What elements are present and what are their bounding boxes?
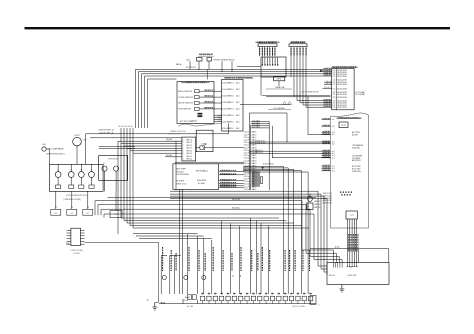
svg-text:GA 16: GA 16 bbox=[252, 159, 257, 162]
svg-text:S4: S4 bbox=[122, 126, 124, 128]
svg-text:D-4: D-4 bbox=[332, 155, 335, 157]
svg-text:C2: C2 bbox=[333, 84, 335, 86]
svg-text:C3-2: C3-2 bbox=[218, 118, 221, 120]
svg-text:D-4: D-4 bbox=[332, 132, 335, 134]
svg-text:34-2: 34-2 bbox=[236, 89, 239, 91]
svg-text:D-4: D-4 bbox=[332, 143, 335, 145]
svg-text:[ CONL W WIPER MTR SPD ]: [ CONL W WIPER MTR SPD ] bbox=[66, 195, 88, 197]
svg-text:34-21-20 B: 34-21-20 B bbox=[337, 107, 347, 109]
svg-text:F12: F12 bbox=[86, 213, 89, 215]
svg-text:D-4: D-4 bbox=[332, 126, 335, 128]
svg-text:C/BL: C/BL bbox=[186, 59, 190, 61]
svg-text:NO SIGN: NO SIGN bbox=[198, 183, 206, 185]
svg-text:34-2: 34-2 bbox=[236, 82, 239, 84]
svg-text:RED 16: RED 16 bbox=[187, 148, 192, 150]
svg-text:IGN SW SENSE: IGN SW SENSE bbox=[176, 174, 189, 176]
svg-text:YEL 18: YEL 18 bbox=[326, 81, 331, 83]
svg-text:RED 16: RED 16 bbox=[187, 139, 192, 141]
svg-text:RED 16: RED 16 bbox=[187, 150, 192, 152]
svg-text:F11: F11 bbox=[70, 213, 73, 215]
svg-text:2: 2 bbox=[183, 150, 184, 152]
svg-text:D-4: D-4 bbox=[332, 151, 335, 153]
svg-text:A/B BLOWER SW: A/B BLOWER SW bbox=[178, 90, 192, 93]
svg-text:GA 16: GA 16 bbox=[252, 133, 257, 136]
svg-text:34-2: 34-2 bbox=[236, 128, 239, 130]
svg-text:C2-4: C2-4 bbox=[244, 189, 248, 191]
svg-text:S4: S4 bbox=[125, 126, 127, 128]
svg-text:GA 16: GA 16 bbox=[252, 131, 257, 134]
svg-text:VOLT ARRAY: VOLT ARRAY bbox=[273, 107, 285, 110]
svg-text:S4: S4 bbox=[119, 126, 121, 128]
svg-text:RED 16: RED 16 bbox=[187, 153, 192, 155]
svg-text:34-2: 34-2 bbox=[236, 102, 239, 104]
svg-text:RED 16: RED 16 bbox=[187, 159, 192, 161]
svg-text:RED 16: RED 16 bbox=[187, 145, 192, 147]
svg-text:MED BLOWER SW: MED BLOWER SW bbox=[178, 103, 193, 105]
svg-text:C3-4 GRN 14: C3-4 GRN 14 bbox=[223, 82, 234, 84]
svg-text:GA 16: GA 16 bbox=[252, 154, 257, 157]
svg-text:2: 2 bbox=[183, 145, 184, 147]
svg-text:C3-4 GRN 14: C3-4 GRN 14 bbox=[223, 122, 234, 124]
svg-text:2: 2 bbox=[183, 148, 184, 150]
svg-text:B1-14 GRD: B1-14 GRD bbox=[352, 169, 361, 171]
svg-text:GA 16: GA 16 bbox=[252, 188, 257, 191]
svg-text:B6 GRD: B6 GRD bbox=[352, 134, 359, 136]
svg-text:C2-13 (CAB): C2-13 (CAB) bbox=[355, 93, 365, 96]
svg-text:SPLICE PACK: SPLICE PACK bbox=[263, 163, 275, 166]
svg-text:LT GRN 16 D-4: LT GRN 16 D-4 bbox=[255, 141, 265, 143]
svg-text:C3-4 GRN 14: C3-4 GRN 14 bbox=[223, 115, 234, 117]
svg-text:D-4: D-4 bbox=[332, 166, 335, 168]
svg-text:D-4: D-4 bbox=[332, 170, 335, 172]
svg-text:F10: F10 bbox=[54, 213, 57, 215]
svg-text:34-21-20 B: 34-21-20 B bbox=[337, 97, 347, 99]
svg-text:GA 16: GA 16 bbox=[252, 146, 257, 149]
svg-text:GRD SYS CONN: GRD SYS CONN bbox=[292, 306, 305, 308]
svg-text:2: 2 bbox=[319, 305, 320, 307]
svg-text:TO TRK: TO TRK bbox=[201, 143, 208, 145]
svg-text:C3-2: C3-2 bbox=[218, 115, 221, 117]
svg-text:GA 16: GA 16 bbox=[252, 167, 257, 170]
svg-text:GA 16: GA 16 bbox=[252, 165, 257, 168]
svg-text:OIL PRESS: OIL PRESS bbox=[352, 158, 360, 160]
svg-text:C3-4 GRN 14: C3-4 GRN 14 bbox=[223, 109, 234, 111]
svg-text:DR-36: DR-36 bbox=[341, 125, 346, 127]
svg-text:LEVEL SEN: LEVEL SEN bbox=[347, 275, 356, 277]
svg-text:C2: C2 bbox=[333, 76, 335, 78]
svg-text:34-21-20 B: 34-21-20 B bbox=[337, 84, 347, 86]
svg-text:C3-4 GRN 14: C3-4 GRN 14 bbox=[223, 128, 234, 130]
svg-text:C2: C2 bbox=[333, 107, 335, 109]
svg-text:34-2: 34-2 bbox=[236, 109, 239, 111]
svg-text:FLUID IND: FLUID IND bbox=[352, 147, 361, 149]
svg-text:PNL 5A: PNL 5A bbox=[329, 274, 336, 277]
svg-text:C3-4 GRN 14: C3-4 GRN 14 bbox=[223, 96, 234, 98]
svg-text:WIPER CON C2 D4: WIPER CON C2 D4 bbox=[170, 131, 185, 133]
svg-text:ANTI THEFT: ANTI THEFT bbox=[176, 167, 186, 170]
svg-text:34-2: 34-2 bbox=[236, 122, 239, 124]
svg-text:LOW BLOWER SW: LOW BLOWER SW bbox=[178, 97, 193, 99]
svg-text:[ WINDSHIELD WIPER ]: [ WINDSHIELD WIPER ] bbox=[64, 199, 82, 201]
svg-text:C-23: C-23 bbox=[350, 215, 354, 217]
svg-text:A-28: A-28 bbox=[66, 242, 70, 245]
svg-text:B1-12 PWR: B1-12 PWR bbox=[352, 166, 361, 168]
svg-text:LEVEL SEN: LEVEL SEN bbox=[352, 171, 361, 173]
svg-text:34-21-20 B: 34-21-20 B bbox=[337, 76, 347, 78]
svg-text:GRN 18 D-12: GRN 18 D-12 bbox=[323, 193, 333, 195]
svg-text:D-4: D-4 bbox=[332, 168, 335, 170]
svg-text:STEREO HEATER RELAY: STEREO HEATER RELAY bbox=[213, 58, 235, 61]
svg-text:A-7 SPLICE: A-7 SPLICE bbox=[186, 66, 196, 69]
svg-text:YEL 18: YEL 18 bbox=[326, 83, 331, 85]
svg-text:LOW: LOW bbox=[83, 140, 87, 142]
svg-text:RED 16: RED 16 bbox=[187, 156, 192, 158]
svg-text:2: 2 bbox=[183, 139, 184, 141]
svg-text:34-21-20 B: 34-21-20 B bbox=[337, 88, 347, 90]
svg-text:C3-4 GRN 14: C3-4 GRN 14 bbox=[223, 89, 234, 91]
svg-text:DATA LINK: DATA LINK bbox=[275, 86, 285, 89]
svg-text:C3-4 GRN 14: C3-4 GRN 14 bbox=[223, 102, 234, 104]
svg-text:GA 16: GA 16 bbox=[252, 136, 257, 139]
svg-text:ST: ST bbox=[103, 162, 105, 164]
svg-text:CHARGE/START 1A: CHARGE/START 1A bbox=[98, 129, 114, 132]
svg-text:D-4: D-4 bbox=[332, 134, 335, 136]
svg-text:D-4: D-4 bbox=[332, 153, 335, 155]
svg-text:LOW ENGINE: LOW ENGINE bbox=[352, 155, 362, 157]
svg-text:W CONN: W CONN bbox=[73, 253, 79, 255]
svg-text:C3-2: C3-2 bbox=[218, 117, 221, 119]
svg-text:2: 2 bbox=[183, 159, 184, 161]
svg-text:S4: S4 bbox=[128, 126, 130, 128]
svg-text:ALT CONTROLLER: ALT CONTROLLER bbox=[302, 90, 319, 93]
svg-text:MODULE: MODULE bbox=[176, 171, 184, 173]
svg-text:SIGN GRND: SIGN GRND bbox=[197, 180, 207, 182]
svg-text:2: 2 bbox=[183, 156, 184, 158]
svg-text:C2: C2 bbox=[333, 88, 335, 90]
svg-text:2: 2 bbox=[183, 153, 184, 155]
svg-text:C2: C2 bbox=[333, 97, 335, 99]
svg-text:BSTR: BSTR bbox=[277, 79, 282, 81]
svg-text:D-4: D-4 bbox=[332, 119, 335, 121]
svg-text:HI BLOWER SW: HI BLOWER SW bbox=[178, 109, 191, 111]
svg-text:LT GRN 16 D-4: LT GRN 16 D-4 bbox=[255, 143, 265, 145]
svg-text:D-4: D-4 bbox=[332, 142, 335, 144]
svg-text:GA 16: GA 16 bbox=[252, 162, 257, 165]
svg-text:A/C COMP RELAY: A/C COMP RELAY bbox=[49, 147, 65, 150]
svg-text:C/STRT: C/STRT bbox=[74, 135, 80, 137]
svg-text:RED 16: RED 16 bbox=[187, 142, 192, 144]
svg-text:D-4: D-4 bbox=[332, 157, 335, 159]
svg-text:34-2: 34-2 bbox=[236, 96, 239, 98]
svg-text:34-2: 34-2 bbox=[236, 115, 239, 117]
svg-text:GA 16: GA 16 bbox=[252, 157, 257, 160]
svg-text:S4: S4 bbox=[131, 126, 133, 128]
svg-text:2: 2 bbox=[183, 142, 184, 144]
svg-text:C3-2: C3-2 bbox=[218, 120, 221, 122]
